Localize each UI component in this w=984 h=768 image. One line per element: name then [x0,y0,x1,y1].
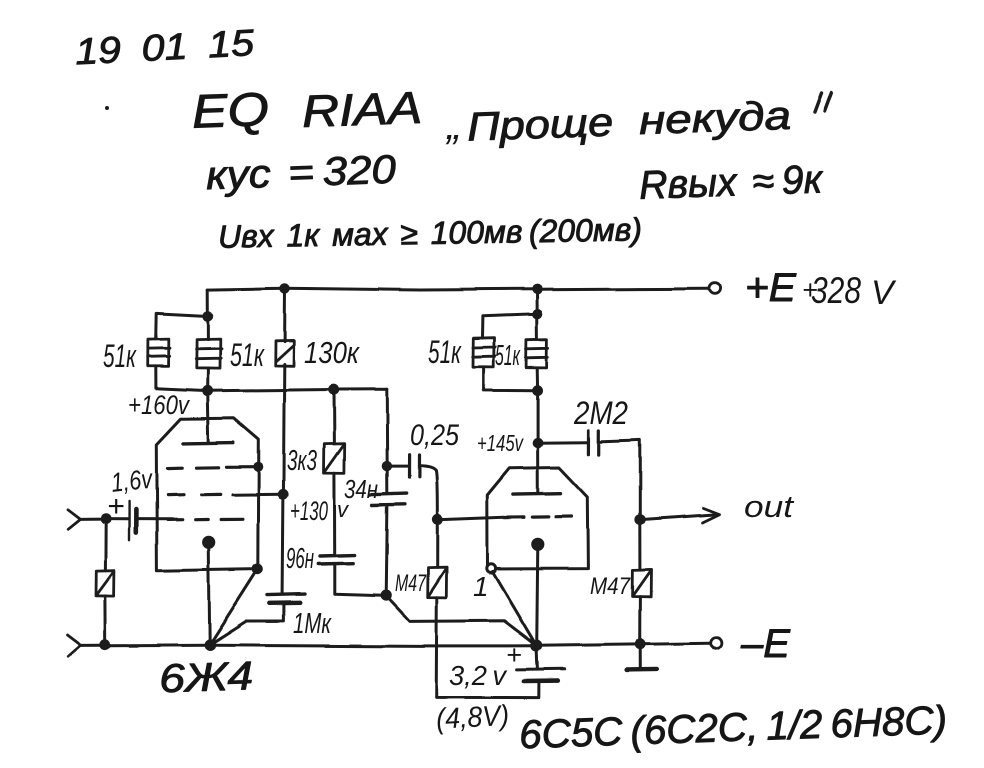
wire bottom rail [81,643,711,646]
wire 34n branch down [385,389,389,493]
node M input resistor bottom [100,639,111,650]
svg-text:51к: 51к [495,340,521,372]
wire M47 right bottom lead [638,597,641,645]
svg-text:+145v: +145v [477,430,524,456]
capacitor 96n [320,553,355,557]
svg-text:out: out [744,489,795,524]
node Q out [634,514,645,525]
wire cathode2 lead [537,544,538,646]
svg-text:51к: 51к [428,334,462,370]
svg-text:1Мк: 1Мк [293,608,332,640]
wire 2M2 right lead down to out node [600,440,640,519]
wire grid2 entry [437,517,504,520]
wire 3k3 to 96n [333,473,336,555]
stray ink dot [106,106,110,110]
svg-text:1: 1 [473,571,489,602]
wire right pair main vertical [536,289,539,340]
wire 130k top lead [283,288,286,341]
wire anode2 feed [536,391,539,494]
node G right pair bottom [532,385,543,396]
tube1 g1 dashes [167,518,243,522]
wire 51k B bottom lead [206,369,209,391]
svg-text:2М2: 2М2 [573,395,628,431]
resistor 51k B [195,339,221,369]
node F right pair top [532,309,542,319]
node tube1 corner [252,564,263,575]
svg-text:51к: 51к [103,338,137,374]
tube2 anode bar [513,492,561,496]
resistor 130k [275,340,294,365]
node J 0,25 tap [382,461,392,471]
resistor 51k C [473,338,496,367]
wire anode1 lead [207,391,208,443]
capacitor 1Mk [268,594,306,595]
wire 34n bottom to node L [386,506,387,596]
input arrow bottom [68,635,82,656]
node E 3k3 top [329,384,340,395]
tube2 cathode dot [531,538,544,551]
tube2 grid dashes [504,517,571,518]
resistor input [96,571,114,596]
svg-text:Uвх 1к мах ≥ 100мв (200мв): Uвх 1к мах ≥ 100мв (200мв) [218,211,643,254]
svg-text:328: 328 [811,270,861,311]
svg-text:130к: 130к [304,335,360,370]
svg-text:0,25: 0,25 [410,419,459,452]
wire screen g2 solid segment [233,493,284,497]
node input top [100,514,111,525]
resistor M47 left [428,568,447,598]
svg-text:(4,8V): (4,8V) [435,700,510,736]
svg-text:3к3: 3к3 [287,445,317,477]
battery 3,2v plates [517,667,565,671]
capacitor 0,25 [408,455,411,478]
wire 1Mk bottom to cathode1 [209,603,284,644]
wire g3-cathode diagonal [209,569,257,645]
node L RIAA bottom [381,590,392,601]
resistor M47 right [632,569,651,596]
tube 6S5S envelope [487,468,588,569]
node I screen g2 [278,489,289,500]
svg-text:EQ: EQ [191,82,270,138]
wire M47 right top lead [638,520,641,570]
resistor 51k D [526,340,548,368]
svg-text:51к: 51к [230,337,265,373]
wire input top [80,518,106,521]
tube1 g2 dashes [167,493,220,497]
wire input resistor top lead [104,519,107,571]
battery 1,6v input plates [128,501,131,540]
wire 0,25 right lead to grid2 [420,466,438,520]
input arrow top [68,510,81,530]
wire left main vertical [206,290,209,340]
wire M47 left bottom U-wire to battery [436,597,539,697]
wire input cell leads [106,518,172,521]
node N cathode1 rail [204,639,216,651]
wire +E top rail [207,288,709,290]
svg-text:некуда: некуда [638,94,791,143]
wire 130k down to screen and 1Mk [283,364,285,594]
wire cathode1 lead [208,542,209,644]
wire 51k A bottom [156,366,207,390]
node H +145v [532,437,543,448]
svg-text:V: V [871,274,897,312]
wire 2M2 left lead [538,441,589,445]
wire 96n bottom to node L [335,564,383,596]
svg-text:М47: М47 [590,573,631,600]
svg-text:кус = 320: кус = 320 [205,148,396,199]
node P rail-ground [634,639,645,650]
resistor 51k A [148,339,170,366]
wire anode1 horizontal to RIAA [207,389,387,391]
node g3-wall [253,462,263,472]
wire 51k C branch top [483,314,538,338]
svg-text:+160v: +160v [128,390,190,420]
wire 51k D bottom lead [536,368,539,391]
resistor 3k3 [324,443,345,473]
wire 3k3 top lead [333,390,336,444]
svg-text:М47: М47 [395,570,427,597]
tube1 cathode dot [202,536,215,549]
node rail-130k [280,283,290,293]
node O cathode2 rail [531,640,543,652]
wire M47 left top lead [436,520,439,568]
wire 51k C bottom [484,367,537,391]
wire battery top to cathode2 node [535,646,539,669]
svg-text:3,2 v: 3,2 v [449,660,508,691]
terminal -E (open circle) [711,638,722,649]
svg-text:34н: 34н [344,474,378,504]
svg-text:„: „ [445,101,461,148]
svg-text:+E: +E [745,266,797,310]
wire out with arrow [640,514,717,519]
svg-text:RIAA: RIAA [301,82,423,137]
node C left pair top [202,311,213,322]
node K grid2 [432,514,443,525]
tube 6Zh4 envelope [156,418,258,571]
wire 51k A branch top [156,313,208,339]
capacitor 34n [371,494,407,495]
svg-text:–E: –E [740,622,791,666]
wire 0,25 left lead [387,465,409,468]
svg-text:Проще: Проще [466,101,613,150]
terminal +E (open circle) [710,283,721,294]
capacitor 2M2 [587,430,590,454]
wire node L to cathode2 [387,596,537,645]
svg-text:6Ж4: 6Ж4 [158,654,253,701]
tube1 g3 dashes [167,466,256,470]
svg-text:96н: 96н [286,543,314,575]
svg-text:+130: +130 [290,496,328,526]
svg-text:Rвых ≈ 9к: Rвых ≈ 9к [638,157,824,207]
tube1 anode bar [183,441,234,445]
closing quote strokes [814,92,831,112]
wire input resistor bottom lead [104,596,107,644]
ground symbol [638,644,641,668]
wire pin1 diagonal to cathode2 [493,572,537,646]
node rail-right-pair [532,284,542,294]
node D anode1 [202,385,213,396]
pin 1 small circle [487,564,496,573]
